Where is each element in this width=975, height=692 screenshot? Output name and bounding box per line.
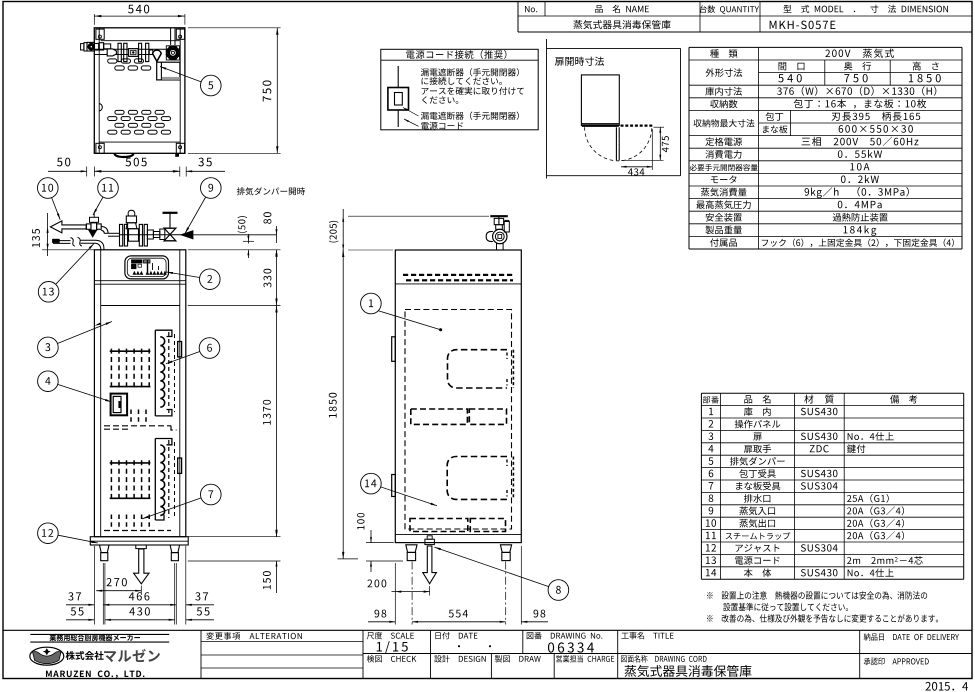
dim 100 [366,542,394,544]
callout 5 [160,67,201,82]
callout 3b arrow [94,323,101,327]
model number [770,21,777,29]
callout 12 [58,535,98,543]
callout 8 [434,547,548,587]
callout 14 [381,487,437,506]
upper section bottom shelf (dashed) [130,410,132,425]
dim 330 [188,249,281,251]
spec table text [710,49,719,57]
callout 11 [93,197,103,215]
exhaust damper label [237,187,245,195]
top view bottom bump [114,153,133,157]
spec table grid [688,47,690,249]
dims (50)/80 [247,234,249,244]
header label No. [525,6,529,12]
front view body [94,250,185,537]
callout 6 [166,352,200,364]
callout 7 [142,498,201,519]
callout 13 [56,244,94,285]
door-open view box [546,39,548,179]
maruzen logo block [30,633,169,635]
side door handle tabs [392,337,396,362]
side hidden racks (dashed) [405,310,512,530]
note line 3 [707,615,713,621]
top view piping assembly [95,48,176,50]
parts table text [703,396,710,403]
callout 1 [378,311,440,330]
power cord note box [381,49,538,130]
dim 1370 [188,536,281,538]
header label MODEL DIMENSION [784,5,792,13]
control panel (callout 2 target) [125,256,169,279]
callout 2 [167,272,200,278]
dim 135 [47,213,49,256]
header label QUANTITY [700,5,707,13]
dim 1850 [342,250,344,559]
top view lower vent grid [115,110,124,114]
side feet [406,545,417,553]
electrical box (callout 5 target) [157,62,180,80]
side view body & vent band [395,250,521,543]
top view upper vent slots [108,59,117,63]
dim (205) [348,215,489,217]
door hinges [178,342,182,357]
callout 4 [58,384,112,402]
door handle (callout 4 target) [111,394,128,416]
callout 3 [57,322,112,344]
dim 540 (top view width) [93,14,95,25]
front bottom dims 270/466/430 [93,546,95,625]
top view corner brackets [96,29,104,39]
top view body [94,28,185,154]
note line 2 [723,603,730,611]
front piping assembly [50,221,86,233]
lower knife rack & cutting-board rack (callout 7 target) [110,462,151,464]
date 2015.4 [925,682,930,691]
side steam trap assembly [490,215,508,217]
note line 1 [707,592,713,598]
door-open cabinet & swing arc [581,75,619,126]
exhaust direction arrow [180,230,194,239]
product name [573,20,582,29]
parts table grid [701,392,963,394]
front drain arrow [134,549,149,584]
dim 750 (top view depth) [188,27,281,29]
title block grid [3,629,972,631]
upper knife rack & cutting-board rack (callout 6 target) [110,350,151,352]
callout 9 [185,197,206,234]
side drain arrow [423,546,437,584]
callout 10 [52,198,61,220]
dims 50/505/35 [86,167,88,177]
title block text [206,632,214,640]
dim 150 [188,560,281,562]
top view left hinge notch [99,104,102,111]
header table grid [518,31,972,33]
side bottom dims 200/98/554/98 [411,562,413,625]
header label NAME [595,5,602,13]
door-open dims 434/475 [621,159,664,161]
front feet (callout 12 target) [90,537,188,545]
